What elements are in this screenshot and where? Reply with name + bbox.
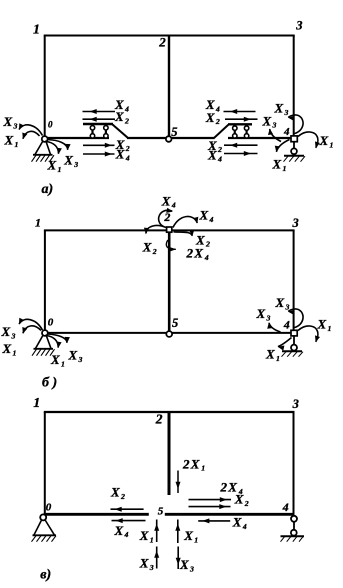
figure a support hatching at 0 — [32, 155, 55, 162]
svg-text:X: X — [274, 101, 284, 116]
svg-text:1: 1 — [33, 23, 40, 38]
figure a node label 0 — [48, 120, 53, 130]
svg-text:2: 2 — [163, 210, 170, 224]
svg-text:4: 4 — [242, 522, 247, 531]
figure c ground hatching at 4 — [281, 537, 304, 542]
figure c label X4 left-below — [114, 523, 129, 539]
figure a label X4 right-bottom — [207, 147, 222, 163]
svg-text:2X: 2X — [186, 246, 205, 261]
figure a moment X3 at node 0 upper-left — [19, 123, 43, 135]
figure c support hatching at 0 — [32, 536, 57, 542]
svg-text:0: 0 — [48, 120, 53, 130]
figure b moment X4 node 2 right — [173, 216, 198, 227]
svg-text:1: 1 — [61, 359, 65, 368]
svg-text:2X: 2X — [182, 456, 201, 471]
figure a right column 3-4 — [293, 36, 295, 139]
figure a beam 0 to left slider — [45, 137, 109, 139]
svg-text:X: X — [317, 317, 327, 332]
figure b node label 3 — [292, 216, 299, 230]
figure b frame: top beam 1-2-3 — [44, 229, 295, 231]
svg-text:3: 3 — [272, 121, 277, 130]
figure b ground line at 4 — [282, 350, 302, 352]
figure b moment X3 node 0 upper-left — [19, 318, 43, 330]
figure b moment X2 node 2 right — [174, 230, 195, 236]
svg-text:X: X — [139, 528, 149, 543]
figure b label X1 node 0 bottom — [50, 352, 65, 368]
svg-text:2: 2 — [120, 492, 125, 501]
svg-text:X: X — [272, 157, 282, 172]
figure a label X3 node 0 upper-left — [3, 114, 18, 130]
figure a node label 1 — [33, 23, 40, 38]
svg-text:X: X — [114, 523, 124, 538]
figure a right slider roller 1 — [233, 126, 237, 138]
svg-text:1: 1 — [194, 536, 198, 545]
figure a moment X3 at node 0 bottom-right — [47, 140, 71, 151]
figure c ground line at 4 — [281, 535, 305, 537]
svg-text:X: X — [199, 208, 209, 223]
figure b moment X2 node 2 left — [144, 226, 166, 235]
svg-text:4: 4 — [204, 253, 209, 262]
figure c left column 1-0 — [44, 412, 46, 516]
svg-text:2: 2 — [217, 145, 222, 154]
figure c node label 1 — [33, 396, 40, 411]
figure c middle column 2 (cut) — [168, 412, 171, 495]
svg-text:1: 1 — [15, 140, 19, 149]
svg-text:2: 2 — [152, 247, 157, 256]
figure c hinge node 4 — [291, 516, 297, 522]
figure b moment X1 node 0 left — [22, 326, 41, 334]
svg-text:X: X — [110, 484, 120, 499]
svg-text:2: 2 — [158, 35, 166, 50]
figure a hinge node 0 — [42, 136, 48, 142]
figure a label X3 node 4 top — [274, 101, 289, 117]
figure a node label 5 — [171, 125, 177, 139]
svg-text:4: 4 — [283, 126, 290, 138]
svg-text:2: 2 — [215, 117, 220, 126]
svg-text:в): в) — [40, 567, 51, 582]
figure a frame: top beam 1-2-3 — [44, 35, 295, 37]
figure b label X3 node 0 bottom-right — [68, 348, 83, 364]
figure c arrow X4 left-below — [112, 518, 146, 523]
svg-text:1: 1 — [330, 141, 334, 150]
svg-text:2: 2 — [244, 499, 249, 508]
svg-text:б ): б ) — [42, 376, 57, 391]
figure a beam left slider to node 5 to right diagonal — [127, 137, 215, 139]
figure a moment X1 node 4 bottom — [275, 140, 290, 153]
figure b moment X1 node 0 bottom — [46, 336, 62, 349]
svg-text:X: X — [275, 295, 285, 310]
figure a arrow X2 right-top — [225, 117, 258, 122]
svg-text:3: 3 — [189, 564, 194, 573]
svg-text:2: 2 — [205, 240, 210, 249]
figure b moment 2X4 node 2 — [166, 240, 176, 251]
figure b node label 4 — [283, 317, 290, 331]
svg-text:X: X — [3, 114, 13, 129]
figure a arrow X2 left-top — [83, 117, 116, 122]
figure b node label 0 — [48, 317, 54, 329]
figure a arrow X4 left-top — [83, 109, 116, 114]
figure b moment X3 node 4 left — [267, 322, 280, 332]
svg-text:4: 4 — [283, 317, 290, 331]
svg-text:1: 1 — [201, 464, 205, 473]
svg-text:X: X — [68, 348, 78, 363]
figure c bottom beam 0-5 left segment — [44, 513, 149, 516]
svg-text:X: X — [114, 109, 124, 124]
figure c sublabel v) — [40, 567, 51, 582]
figure a label X1 node 0 bottom — [47, 158, 62, 174]
figure a support triangle at 0 — [33, 141, 53, 155]
figure a arrow X4 right-top — [224, 109, 256, 114]
figure c arrow X3 right down — [176, 547, 181, 570]
figure a left slider diagonal — [113, 125, 129, 139]
svg-text:X: X — [262, 113, 272, 128]
svg-text:X: X — [115, 146, 125, 161]
svg-text:5: 5 — [158, 506, 164, 518]
figure c frame: top beam 1-2-3 — [44, 411, 295, 413]
svg-text:3: 3 — [11, 331, 16, 340]
figure b bottom beam 0-5-4 — [45, 332, 294, 334]
svg-text:4: 4 — [215, 104, 220, 113]
svg-text:X: X — [207, 147, 217, 162]
figure a moment X1 at node 0 bottom — [46, 142, 62, 155]
figure a label X2 left-bottom — [115, 137, 130, 153]
svg-text:3: 3 — [73, 160, 78, 169]
figure b node 2 square — [167, 227, 172, 232]
figure a node label 2 — [158, 35, 166, 50]
svg-text:2: 2 — [155, 412, 163, 427]
svg-text:X: X — [205, 110, 215, 125]
svg-text:а): а) — [42, 182, 54, 197]
figure a right slider roller 2 — [244, 126, 248, 138]
figure b middle column 2-5 — [168, 230, 171, 333]
figure c support triangle at 0 — [33, 520, 57, 536]
figure a moment X1 at node 0 left — [22, 131, 39, 139]
figure c label X1 left — [139, 528, 154, 544]
svg-text:1: 1 — [13, 348, 17, 357]
svg-text:1: 1 — [150, 536, 154, 545]
svg-text:X: X — [142, 240, 152, 255]
figure a arrow X4 left-bottom — [83, 152, 115, 157]
svg-text:5: 5 — [171, 125, 177, 139]
figure c arrow 2X4 right-above — [189, 497, 232, 502]
svg-text:1: 1 — [58, 165, 62, 174]
svg-text:3: 3 — [295, 19, 302, 33]
figure b ground hatching at 4 — [282, 352, 304, 357]
figure b support hatching at 0 — [32, 349, 55, 356]
svg-text:3: 3 — [149, 563, 154, 572]
figure a label X2 left-top — [114, 109, 129, 125]
figure a node label 3 — [295, 19, 302, 33]
figure c label X3 right — [179, 557, 194, 573]
figure a left slider roller 2 — [104, 126, 108, 138]
svg-text:1: 1 — [35, 216, 41, 230]
figure b hinge node 5 — [166, 331, 172, 337]
figure c arrow X4 right-below — [198, 518, 230, 523]
svg-text:4: 4 — [125, 154, 130, 163]
svg-text:0: 0 — [46, 502, 52, 514]
figure a label X4 left-bottom — [115, 146, 130, 162]
figure b label 2X4 — [186, 246, 209, 262]
figure a roller link at 4 — [293, 142, 295, 149]
figure b node label 1 — [35, 216, 41, 230]
figure c arrow X3 left up — [154, 547, 159, 569]
figure b node 2 label — [163, 210, 170, 224]
figure a label X3 node 4 left — [262, 113, 277, 129]
figure c label X2 right-above — [234, 492, 249, 508]
svg-text:X: X — [2, 341, 12, 356]
svg-text:4: 4 — [209, 215, 214, 224]
svg-text:1: 1 — [276, 354, 280, 363]
svg-text:4: 4 — [124, 104, 129, 113]
figure b moment X4 node 2 loop — [159, 208, 173, 227]
svg-text:X: X — [319, 133, 329, 148]
svg-text:4: 4 — [217, 155, 222, 164]
figure b label X1 node 4 bottom — [265, 347, 280, 363]
figure c node label 2 — [155, 412, 163, 427]
svg-text:X: X — [232, 515, 242, 530]
figure a left column 1-0 — [44, 36, 46, 139]
figure b label X1 node 0 left — [2, 341, 17, 357]
figure c label X3 left — [139, 555, 154, 571]
figure b roller link at 4 — [293, 336, 295, 345]
svg-text:X: X — [50, 352, 60, 367]
figure a moment X3 node 4 left — [268, 129, 281, 142]
figure a label X1 node 4 right — [319, 133, 334, 149]
figure a sublabel a) — [42, 182, 54, 197]
figure b label X2 node 2 left — [142, 240, 157, 256]
figure b moment X3 node 4 top — [288, 309, 303, 328]
figure b label X4 node 2 right — [199, 208, 214, 224]
figure b hinge node 0 — [42, 330, 48, 336]
figure a left slider top bar — [83, 123, 113, 125]
figure b support triangle at 0 — [34, 335, 54, 349]
svg-text:2: 2 — [125, 144, 130, 153]
figure a beam right slider to 4 — [228, 137, 294, 139]
svg-text:3: 3 — [266, 313, 271, 322]
figure a label X2 right-top — [205, 110, 220, 126]
figure c label X4 right-below — [232, 515, 247, 531]
figure a label X2 right-bottom — [207, 138, 222, 154]
figure a arrow X2 left-bottom — [83, 143, 115, 148]
figure a arrow X2 right-bottom — [224, 143, 258, 148]
figure b moment X1 node 4 bottom — [278, 338, 292, 351]
svg-text:3: 3 — [13, 121, 18, 130]
figure c arrow 2X1 down — [176, 471, 181, 494]
figure a middle column 2-5 — [168, 36, 170, 139]
svg-text:4: 4 — [282, 500, 289, 514]
svg-text:X: X — [256, 306, 266, 321]
figure c label 2X4 right-above — [220, 479, 243, 495]
figure c hinge node 0 — [40, 514, 46, 520]
svg-text:X: X — [161, 193, 171, 208]
figure c arrow X1 right up — [175, 520, 180, 544]
figure c roller circle at 4 — [291, 530, 297, 536]
svg-text:2: 2 — [124, 116, 129, 125]
svg-text:0: 0 — [48, 317, 54, 329]
svg-text:X: X — [179, 557, 189, 572]
figure b right column 3-4 — [293, 230, 295, 333]
figure b label X3 node 4 left — [256, 306, 271, 322]
svg-text:X: X — [4, 133, 14, 148]
figure a label X4 left-top — [114, 97, 129, 113]
svg-text:X: X — [234, 492, 244, 507]
figure a label X4 right-top — [205, 97, 220, 113]
figure c node label 4 — [282, 500, 289, 514]
figure a node 4 square — [291, 136, 297, 142]
figure a label X3 node 0 bottom-right — [63, 153, 78, 169]
svg-text:4: 4 — [171, 201, 176, 210]
figure a hinge node 5 — [166, 136, 172, 142]
figure a node label 4 — [283, 126, 290, 138]
svg-text:X: X — [63, 153, 73, 168]
figure a label X1 node 0 left — [4, 133, 19, 149]
svg-text:1: 1 — [328, 324, 332, 333]
figure a moment X3 node 4 top — [288, 115, 303, 134]
figure c right column 3-4 — [293, 412, 295, 515]
figure c label 2X1 — [182, 456, 205, 472]
figure b node 4 square — [291, 330, 297, 336]
svg-text:1: 1 — [283, 164, 287, 173]
figure a right slider diagonal — [214, 125, 229, 138]
figure c bottom beam 5-4 right segment — [165, 513, 294, 516]
figure b label X4 node 2 top — [161, 193, 176, 209]
svg-text:3: 3 — [284, 108, 289, 117]
figure c label X2 left-above — [110, 484, 125, 500]
svg-text:3: 3 — [78, 355, 83, 364]
figure b node label 5 — [172, 316, 178, 330]
figure a ground hatching at 4 — [284, 156, 306, 162]
figure b roller circle at 4 — [291, 345, 297, 351]
figure c node label 5 — [158, 506, 164, 518]
svg-text:5: 5 — [172, 316, 178, 330]
figure b moment X3 node 0 bottom-right — [47, 334, 70, 343]
figure c node label 3 — [292, 397, 299, 411]
figure a left slider roller 1 — [90, 126, 94, 138]
figure b sublabel b) — [42, 376, 57, 391]
figure c node label 0 — [46, 502, 52, 514]
figure a label X1 node 4 bottom — [272, 157, 287, 173]
svg-text:X: X — [47, 158, 57, 173]
figure b label X3 node 0 left — [1, 324, 16, 340]
figure c arrow X1 left up — [154, 520, 159, 543]
svg-text:3: 3 — [292, 216, 299, 230]
figure b label X3 node 4 top — [275, 295, 290, 311]
figure b label X2 node 2 right — [195, 232, 210, 248]
svg-text:X: X — [183, 528, 193, 543]
figure a ground line at 4 — [284, 155, 304, 157]
figure c arrow X2 right-above — [189, 504, 231, 509]
figure b label X1 node 4 right — [317, 317, 332, 333]
figure a right slider top bar — [228, 123, 252, 125]
svg-text:X: X — [1, 324, 11, 339]
svg-text:X: X — [139, 555, 149, 570]
figure a moment X1 node 4 right — [298, 132, 320, 148]
figure b moment X1 node 4 right — [298, 326, 320, 342]
figure c arrow X2 left-above — [111, 507, 144, 512]
figure a roller circle at 4 — [291, 148, 297, 154]
figure a arrow X4 right-bottom — [224, 151, 258, 156]
svg-text:X: X — [265, 347, 275, 362]
figure c roller link at 4 — [293, 522, 295, 530]
svg-text:3: 3 — [292, 397, 299, 411]
svg-text:1: 1 — [33, 396, 40, 411]
figure b left column 1-0 — [44, 230, 46, 333]
svg-text:4: 4 — [124, 530, 129, 539]
figure c label X1 right — [183, 528, 198, 544]
